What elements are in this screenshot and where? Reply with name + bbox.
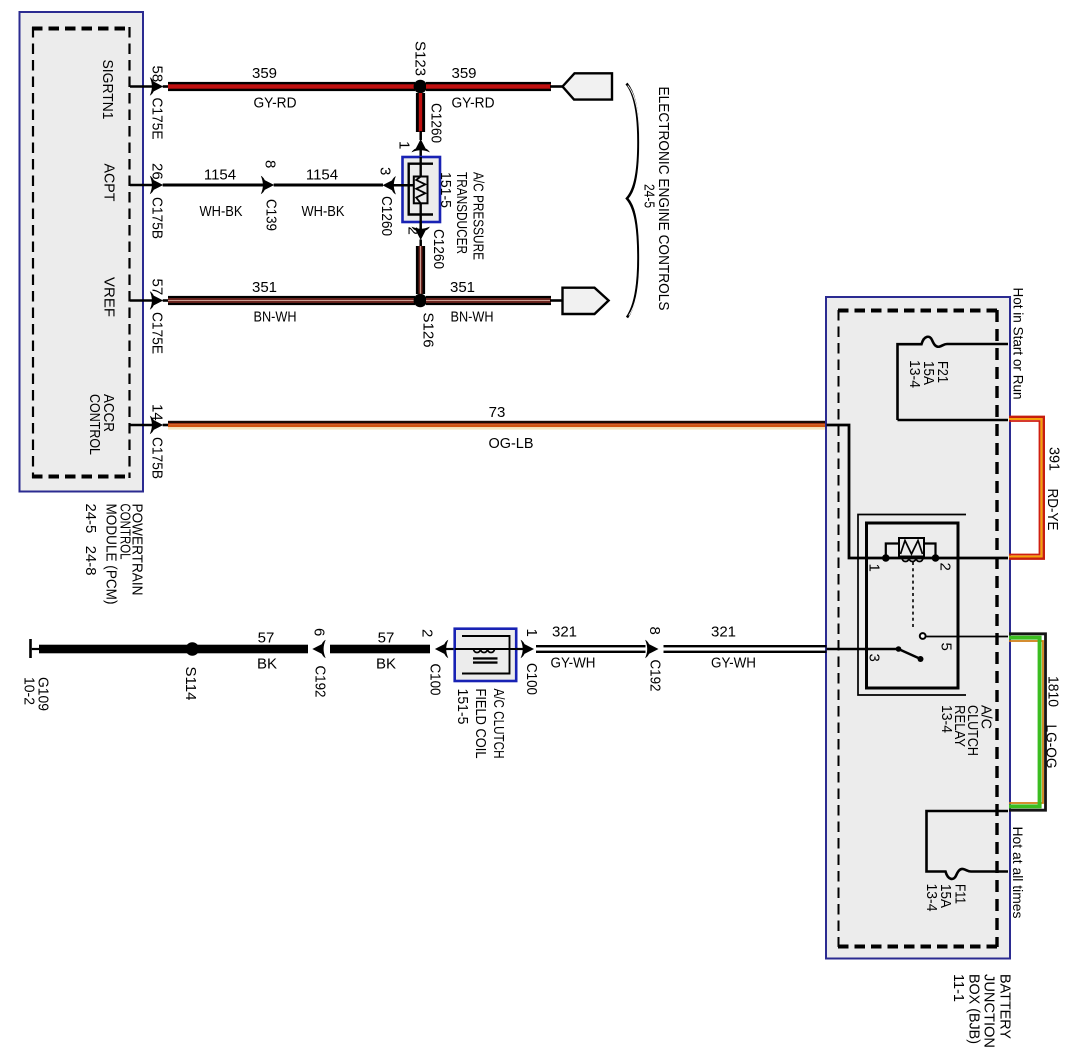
svg-text:1154: 1154 bbox=[306, 167, 338, 184]
relay coil bbox=[886, 538, 936, 562]
connector C139 arrow bbox=[261, 176, 274, 194]
wire bbox=[550, 85, 563, 88]
svg-text:2: 2 bbox=[419, 629, 436, 637]
svg-text:BN-WH: BN-WH bbox=[451, 309, 494, 326]
brace ELECTRONIC ENGINE CONTROLS bbox=[627, 84, 640, 318]
svg-text:FIELD COIL: FIELD COIL bbox=[472, 689, 489, 759]
svg-text:151-5: 151-5 bbox=[437, 172, 454, 208]
svg-text:TRANSDUCER: TRANSDUCER bbox=[453, 172, 470, 254]
wire bbox=[550, 299, 563, 302]
wire bbox=[419, 240, 422, 248]
svg-text:6: 6 bbox=[311, 628, 328, 636]
svg-text:5: 5 bbox=[938, 643, 955, 651]
svg-text:13-4: 13-4 bbox=[938, 705, 955, 733]
wire GY-RD branch to transducer pin 1 bbox=[416, 93, 425, 132]
svg-text:LG-OG: LG-OG bbox=[1043, 725, 1060, 769]
wire bbox=[419, 222, 422, 230]
wire 1154 WH-BK segment 2 bbox=[274, 184, 383, 187]
off-page connector arrow (359) bbox=[563, 73, 613, 99]
splice S123 bbox=[414, 80, 427, 93]
connector C192 arrow (right) bbox=[645, 640, 658, 658]
connector C1260 pin 2 arrow bbox=[412, 227, 430, 240]
wire bbox=[163, 85, 169, 88]
fuse F21 label bbox=[906, 360, 951, 388]
wire to transducer pin 3 bbox=[393, 184, 414, 187]
svg-text:C1260: C1260 bbox=[378, 196, 395, 236]
svg-text:151-5: 151-5 bbox=[454, 689, 471, 725]
connector arrow pin 14 bbox=[150, 416, 163, 434]
wire bbox=[419, 131, 422, 140]
svg-text:BATTERY: BATTERY bbox=[997, 974, 1014, 1039]
A/C clutch field coil box bbox=[455, 629, 517, 681]
internal BJB wire from pin 14 wire to relay coil pin 1 bbox=[827, 425, 1009, 558]
svg-text:1: 1 bbox=[396, 141, 413, 149]
A/C pressure transducer box bbox=[403, 157, 441, 222]
connector C100 arrow (right) bbox=[521, 640, 534, 658]
svg-text:C175B: C175B bbox=[149, 197, 166, 239]
svg-text:C1260: C1260 bbox=[430, 229, 447, 269]
battery junction box (BJB) bbox=[826, 297, 1010, 959]
svg-text:57: 57 bbox=[258, 630, 275, 647]
svg-text:VREF: VREF bbox=[101, 277, 118, 317]
svg-text:BN-WH: BN-WH bbox=[254, 309, 297, 326]
svg-text:11-1: 11-1 bbox=[950, 974, 967, 1002]
svg-text:GY-WH: GY-WH bbox=[551, 655, 596, 672]
svg-text:BOX (BJB): BOX (BJB) bbox=[966, 974, 983, 1044]
svg-text:2: 2 bbox=[937, 563, 954, 571]
svg-text:GY-RD: GY-RD bbox=[452, 95, 495, 112]
wire bbox=[516, 648, 523, 650]
connector arrow pin 58 bbox=[150, 77, 163, 95]
wire 1154 WH-BK segment 1 bbox=[163, 184, 266, 187]
wire bbox=[163, 299, 169, 302]
svg-text:WH-BK: WH-BK bbox=[302, 203, 345, 220]
wire stub PCM pin 14 bbox=[130, 424, 153, 427]
svg-text:8: 8 bbox=[262, 160, 279, 168]
wire 1810 LG-OG loop bbox=[1009, 634, 1046, 810]
svg-text:73: 73 bbox=[489, 404, 506, 421]
svg-text:C1260: C1260 bbox=[428, 103, 445, 143]
PCM label POWERTRAIN CONTROL MODULE (PCM) 24-5 24-8 bbox=[82, 504, 146, 605]
fuse F11 label bbox=[923, 884, 969, 912]
PCM pin name ACCR CONTROL bbox=[86, 394, 117, 455]
svg-text:351: 351 bbox=[450, 279, 475, 296]
svg-text:C175E: C175E bbox=[149, 312, 166, 354]
svg-text:8: 8 bbox=[646, 627, 663, 635]
svg-text:57: 57 bbox=[149, 279, 166, 296]
svg-text:Hot in Start or Run: Hot in Start or Run bbox=[1011, 288, 1027, 400]
wire 359 GY-RD segment 1 bbox=[168, 82, 415, 91]
svg-text:MODULE (PCM): MODULE (PCM) bbox=[103, 504, 120, 605]
svg-text:13-4: 13-4 bbox=[923, 884, 940, 912]
label ELECTRONIC ENGINE CONTROLS 24-5 bbox=[641, 87, 673, 311]
relay pin 3 wire bbox=[827, 648, 899, 650]
svg-text:GY-WH: GY-WH bbox=[711, 655, 756, 672]
wire 359 GY-RD segment 2 bbox=[426, 82, 551, 91]
relay pin 5 wire bbox=[926, 636, 1008, 638]
connector C100 arrow bbox=[435, 640, 448, 658]
svg-text:321: 321 bbox=[552, 624, 577, 641]
connector arrow pin 57 bbox=[150, 291, 163, 309]
BJB label BATTERY JUNCTION BOX (BJB) 11-1 bbox=[950, 974, 1014, 1048]
A/C clutch relay box bbox=[858, 515, 966, 696]
svg-text:OG-LB: OG-LB bbox=[489, 435, 534, 452]
svg-text:351: 351 bbox=[252, 279, 277, 296]
svg-text:WH-BK: WH-BK bbox=[200, 203, 243, 220]
svg-text:S114: S114 bbox=[182, 667, 199, 701]
wire 57 BK segment 2 bbox=[330, 645, 430, 654]
splice S126 bbox=[414, 294, 427, 307]
connector C1260 pin 1 arrow bbox=[412, 139, 430, 152]
wire 57 BK segment 1 bbox=[39, 645, 308, 654]
relay actuation dashed line bbox=[912, 562, 914, 630]
svg-text:1: 1 bbox=[866, 564, 883, 572]
wire stub PCM pin 57 bbox=[130, 299, 153, 302]
wire 1810 LG-OG labels bbox=[1043, 676, 1062, 769]
fuse F11 15A bbox=[927, 811, 1009, 879]
wire BN-WH branch to S126 bbox=[416, 246, 425, 294]
connector C1260 pin 3 arrow bbox=[383, 176, 396, 194]
relay coil pin 1 junction bbox=[882, 554, 890, 562]
relay coil pin 2 junction bbox=[932, 554, 940, 562]
svg-text:13-4: 13-4 bbox=[906, 360, 923, 388]
wire 391 RD-YE labels bbox=[1044, 447, 1063, 531]
svg-text:C100: C100 bbox=[523, 663, 540, 695]
svg-text:SIGRTN1: SIGRTN1 bbox=[99, 60, 116, 120]
svg-text:24-5: 24-5 bbox=[641, 184, 658, 208]
svg-text:1154: 1154 bbox=[204, 167, 236, 184]
svg-text:10-2: 10-2 bbox=[21, 677, 38, 705]
wire 321 GY-WH segment 2 bbox=[664, 645, 827, 653]
ground label G109 10-2 bbox=[21, 677, 52, 711]
svg-text:A/C CLUTCH: A/C CLUTCH bbox=[490, 689, 507, 759]
connector arrow pin 26 bbox=[150, 176, 163, 194]
svg-text:GY-RD: GY-RD bbox=[254, 95, 297, 112]
off-page connector arrow (351) bbox=[563, 288, 609, 314]
wire 351 BN-WH segment 2 bbox=[426, 296, 551, 305]
svg-text:A/C PRESSURE: A/C PRESSURE bbox=[470, 172, 487, 260]
svg-text:24-5 24-8: 24-5 24-8 bbox=[82, 504, 99, 576]
wire 351 BN-WH segment 1 bbox=[168, 296, 415, 305]
svg-text:57: 57 bbox=[378, 630, 395, 647]
svg-text:RD-YE: RD-YE bbox=[1044, 489, 1061, 531]
connector C192 arrow bbox=[312, 640, 325, 658]
svg-text:S126: S126 bbox=[420, 313, 437, 348]
svg-text:C192: C192 bbox=[312, 666, 329, 698]
powertrain control module (PCM) box bbox=[20, 12, 144, 492]
svg-text:3: 3 bbox=[377, 167, 394, 175]
wire bbox=[419, 148, 422, 158]
svg-text:C192: C192 bbox=[647, 660, 664, 692]
svg-text:58: 58 bbox=[149, 66, 166, 83]
svg-text:1810: 1810 bbox=[1045, 676, 1062, 707]
wire 73 OG-LB bbox=[168, 421, 827, 430]
wire bbox=[446, 648, 455, 650]
svg-text:26: 26 bbox=[149, 163, 166, 180]
wire stub PCM pin 58 bbox=[130, 85, 153, 88]
svg-text:BK: BK bbox=[257, 656, 277, 673]
svg-text:CONTROL: CONTROL bbox=[86, 394, 103, 455]
fuse F21 15A bbox=[898, 337, 1009, 420]
svg-text:3: 3 bbox=[866, 654, 883, 662]
wire bbox=[163, 424, 169, 427]
wire 321 GY-WH segment 1 bbox=[536, 645, 646, 653]
svg-text:C175E: C175E bbox=[149, 98, 166, 140]
svg-text:14: 14 bbox=[149, 404, 166, 421]
ground G109 bbox=[29, 639, 40, 658]
svg-text:Hot at all times: Hot at all times bbox=[1010, 827, 1026, 919]
svg-text:C139: C139 bbox=[263, 199, 280, 231]
svg-text:391: 391 bbox=[1046, 447, 1063, 471]
svg-text:C175B: C175B bbox=[149, 437, 166, 479]
transducer label A/C PRESSURE TRANSDUCER 151-5 bbox=[437, 172, 487, 260]
relay contact pin 5 bbox=[920, 633, 926, 639]
wire 391 RD-YE loop bbox=[1009, 417, 1044, 559]
svg-text:321: 321 bbox=[711, 624, 736, 641]
svg-text:C100: C100 bbox=[427, 664, 444, 696]
svg-text:2: 2 bbox=[405, 227, 422, 235]
svg-text:1: 1 bbox=[523, 629, 540, 637]
svg-text:S123: S123 bbox=[412, 41, 429, 76]
wire stub PCM pin 26 bbox=[130, 184, 153, 187]
svg-text:359: 359 bbox=[252, 65, 277, 82]
svg-text:ACPT: ACPT bbox=[101, 164, 118, 202]
relay label A/C CLUTCH RELAY 13-4 bbox=[938, 705, 995, 756]
field coil label A/C CLUTCH FIELD COIL 151-5 bbox=[454, 689, 507, 759]
svg-text:359: 359 bbox=[451, 65, 476, 82]
splice S114 bbox=[186, 642, 200, 656]
relay switch arm bbox=[896, 646, 924, 662]
svg-text:BK: BK bbox=[376, 656, 396, 673]
